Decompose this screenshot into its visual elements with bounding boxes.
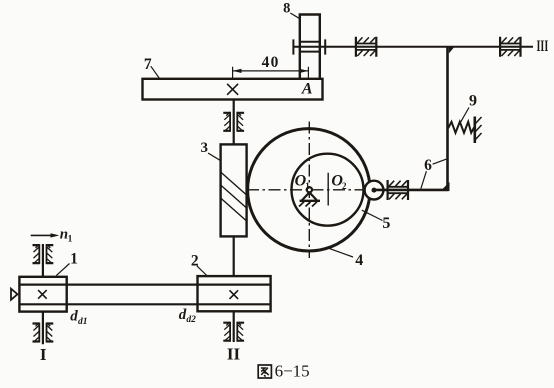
spring 9 [448, 122, 475, 133]
label 3 [200, 140, 220, 161]
helix lines of gear 3 [221, 172, 247, 221]
svg-text:A: A [301, 80, 313, 97]
shaft I [42, 244, 44, 344]
roller follower [365, 181, 384, 200]
svg-text:6−15: 6−15 [275, 361, 310, 380]
svg-text:3: 3 [200, 140, 208, 156]
O2 tick line [327, 173, 329, 206]
label 2 [191, 252, 207, 275]
svg-text:7: 7 [144, 56, 152, 73]
pivot at O1 [299, 187, 320, 206]
svg-text:40: 40 [262, 54, 280, 71]
bearing on shaft II upper [223, 112, 244, 132]
svg-text:1: 1 [68, 235, 73, 245]
bearing on shaft II lower [223, 322, 244, 342]
svg-text:6: 6 [424, 157, 432, 174]
label 4 [326, 247, 364, 269]
caption tu glyph [258, 365, 271, 378]
guide of follower rod [388, 180, 408, 200]
svg-text:d1: d1 [78, 317, 88, 327]
follower rod [374, 189, 449, 192]
svg-text:I: I [40, 345, 47, 364]
label 8 [283, 1, 300, 19]
bearing on shaft I upper [33, 244, 54, 264]
label 6 [421, 157, 447, 189]
label dd1 [70, 309, 87, 327]
bearing on shaft III right [500, 37, 520, 57]
vertical centre line through O1 [308, 122, 310, 259]
svg-text:2: 2 [342, 181, 347, 191]
dimension 40 [233, 54, 309, 79]
svg-text:5: 5 [382, 215, 390, 232]
node O2 [331, 173, 347, 191]
spring anchor wall [473, 117, 476, 144]
svg-text:1: 1 [70, 250, 78, 267]
node O1 [295, 173, 311, 191]
keyed joint mark pulley 2 [230, 290, 239, 299]
belt [19, 285, 270, 305]
label 7 [144, 56, 160, 79]
rack 7 [143, 79, 323, 100]
shaft III [293, 46, 533, 48]
rod 6 vertical [446, 47, 449, 190]
shaft II [233, 100, 235, 343]
label dd2 [179, 307, 196, 325]
svg-text:8: 8 [283, 1, 290, 17]
shaft III shoulder ticks [293, 39, 325, 54]
belt arrow [11, 289, 18, 300]
gear 8 [300, 15, 320, 79]
bearing on shaft I lower [33, 323, 54, 343]
label 5 [362, 210, 391, 232]
svg-text:1: 1 [305, 181, 310, 191]
label 1 [56, 250, 78, 275]
svg-text:9: 9 [469, 92, 477, 109]
input speed arrow n1 [31, 226, 73, 244]
inner circle 5 [292, 154, 364, 226]
pulley 1 [19, 277, 66, 312]
svg-text:d2: d2 [186, 315, 196, 325]
svg-text:4: 4 [355, 252, 363, 269]
fillet at rod corner [441, 182, 450, 191]
pulley 2 [198, 276, 271, 311]
gear 3 [221, 144, 247, 236]
horizontal centre line [247, 189, 364, 191]
keyed joint mark pulley 1 [38, 290, 47, 299]
svg-text:III: III [537, 38, 549, 55]
bearing on shaft III left [356, 37, 376, 57]
svg-text:II: II [227, 345, 241, 364]
fillet at shaft III junction [449, 47, 455, 54]
keyed joint mark on rack 7 [227, 84, 238, 95]
label 9 [460, 92, 477, 123]
hub lines of gear 8 [300, 42, 320, 52]
cam 4 outer circle [248, 129, 370, 251]
